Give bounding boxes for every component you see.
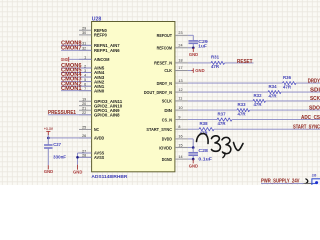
svg-text:15: 15 <box>178 143 182 147</box>
svg-text:CMON7: CMON7 <box>61 45 82 51</box>
svg-text:14: 14 <box>178 155 182 159</box>
svg-text:47R: 47R <box>283 84 291 89</box>
svg-text:R32: R32 <box>254 93 263 98</box>
svg-text:REFOUT: REFOUT <box>157 33 172 38</box>
svg-text:16: 16 <box>178 135 182 139</box>
svg-text:PWR_SUPPLY_24V: PWR_SUPPLY_24V <box>261 179 300 185</box>
svg-text:17: 17 <box>178 66 182 70</box>
svg-text:GND: GND <box>61 57 68 62</box>
svg-text:DRDY_N: DRDY_N <box>157 81 173 86</box>
svg-text:AVSS: AVSS <box>94 155 104 160</box>
svg-text:21: 21 <box>82 107 86 111</box>
svg-text:1uF: 1uF <box>198 44 207 49</box>
svg-text:AIN0: AIN0 <box>94 88 105 93</box>
svg-text:11: 11 <box>178 97 182 101</box>
svg-text:R33: R33 <box>238 102 247 107</box>
svg-text:SCLK: SCLK <box>162 99 173 104</box>
svg-text:29: 29 <box>82 27 86 31</box>
svg-text:47R: 47R <box>211 64 219 69</box>
svg-text:IOVDD: IOVDD <box>159 145 172 150</box>
svg-text:GND: GND <box>189 163 198 168</box>
svg-text:SDO: SDO <box>309 105 320 111</box>
svg-text:23: 23 <box>178 31 182 35</box>
svg-text:CMON1: CMON1 <box>61 86 82 92</box>
svg-text:REFP0: REFP0 <box>94 33 107 38</box>
svg-text:DIN: DIN <box>164 108 172 113</box>
svg-text:19: 19 <box>82 98 86 102</box>
svg-text:GND: GND <box>73 169 82 174</box>
svg-text:+3.3V: +3.3V <box>44 127 54 131</box>
svg-text:DOUT_DRDY_N: DOUT_DRDY_N <box>144 90 173 95</box>
svg-text:START_SYNC: START_SYNC <box>293 124 320 130</box>
svg-text:47R: 47R <box>254 102 262 107</box>
svg-text:30: 30 <box>82 31 86 35</box>
svg-text:CS_N: CS_N <box>162 117 173 122</box>
svg-text:SCK: SCK <box>310 96 320 102</box>
svg-text:12: 12 <box>178 88 182 92</box>
svg-text:47R: 47R <box>269 93 277 98</box>
svg-text:47R: 47R <box>238 111 246 116</box>
svg-text:DRDY: DRDY <box>308 78 320 84</box>
svg-text:C28: C28 <box>198 148 208 153</box>
svg-text:J30: J30 <box>312 173 317 177</box>
svg-text:R38: R38 <box>200 121 209 126</box>
svg-text:DGND: DGND <box>162 157 173 162</box>
svg-text:8: 8 <box>178 125 180 129</box>
svg-text:0.1uF: 0.1uF <box>198 157 212 162</box>
svg-text:330nF: 330nF <box>53 155 66 160</box>
svg-text:R31: R31 <box>211 54 220 59</box>
svg-text:GND: GND <box>195 68 204 73</box>
svg-text:START_SYNC: START_SYNC <box>146 127 172 132</box>
svg-text:ADS1148IRHBR: ADS1148IRHBR <box>91 174 128 179</box>
svg-text:24: 24 <box>178 44 182 48</box>
svg-text:DVDD: DVDD <box>162 137 173 142</box>
svg-text:R37: R37 <box>218 112 227 117</box>
svg-text:REFP1_AIN6: REFP1_AIN6 <box>94 48 120 53</box>
svg-text:GND: GND <box>44 169 53 174</box>
svg-text:9: 9 <box>178 115 180 119</box>
svg-text:47R: 47R <box>218 121 226 126</box>
svg-text:18: 18 <box>178 59 182 63</box>
svg-text:C27: C27 <box>53 142 61 147</box>
svg-text:20: 20 <box>82 102 86 106</box>
svg-text:REFCOM: REFCOM <box>157 46 172 51</box>
svg-text:GPIO0_AIN8: GPIO0_AIN8 <box>94 113 120 118</box>
svg-text:CLK: CLK <box>164 68 172 73</box>
svg-text:10: 10 <box>178 106 182 110</box>
svg-text:25: 25 <box>82 126 86 130</box>
svg-text:R34: R34 <box>269 84 278 89</box>
svg-text:13: 13 <box>178 79 182 83</box>
svg-text:GND: GND <box>189 52 198 57</box>
svg-text:U28: U28 <box>92 17 102 23</box>
svg-text:SDI: SDI <box>310 87 320 93</box>
svg-text:ADC_CS: ADC_CS <box>301 115 320 121</box>
svg-text:AVDD: AVDD <box>94 136 105 141</box>
svg-text:PRESSURE1: PRESSURE1 <box>48 110 76 116</box>
svg-text:RESET: RESET <box>237 59 253 65</box>
svg-text:RESET_N: RESET_N <box>154 61 172 66</box>
svg-text:AINCOM: AINCOM <box>94 57 109 62</box>
svg-text:NC: NC <box>94 127 100 132</box>
svg-text:R36: R36 <box>283 75 292 80</box>
